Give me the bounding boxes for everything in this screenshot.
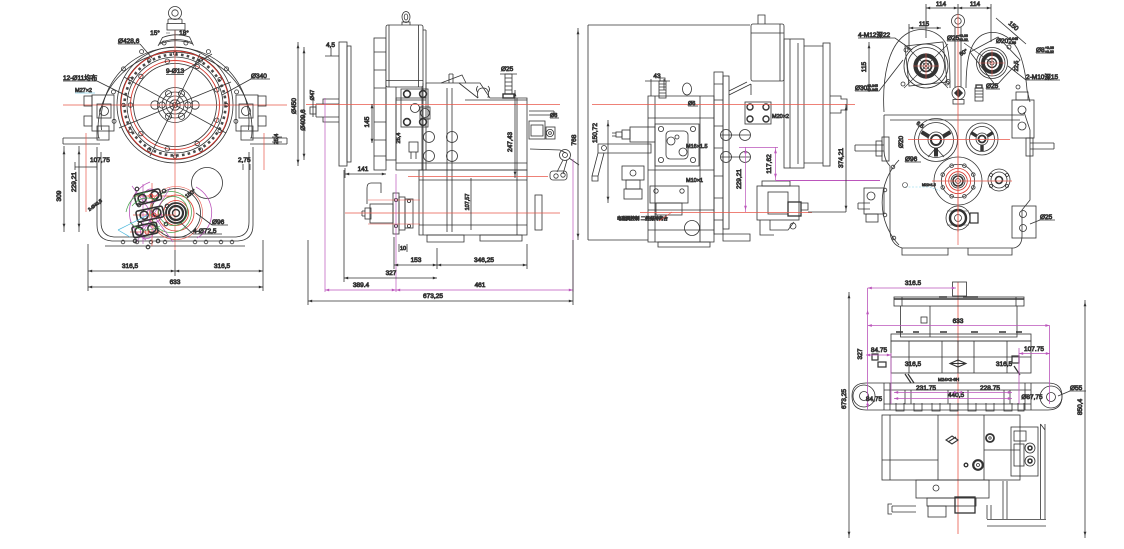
label o428,6	[118, 38, 152, 58]
svg-text:电磁阀控制 二挡保持离合: 电磁阀控制 二挡保持离合	[617, 215, 668, 222]
shackle mount block	[167, 24, 185, 31]
12 bolt holes	[122, 52, 228, 158]
label o25 top	[501, 66, 514, 73]
dim o450 o409 o47 left	[291, 42, 316, 166]
housing outer second arc	[101, 47, 249, 130]
lifting eye small	[402, 12, 410, 28]
cyan label M27x2	[75, 88, 95, 94]
svg-text:Ø87,75: Ø87,75	[1021, 394, 1043, 401]
eyebolt boss circle	[952, 87, 965, 105]
pto housing circle	[152, 189, 201, 238]
main body	[648, 96, 714, 242]
svg-text:Ø47: Ø47	[310, 90, 316, 100]
output green circles	[159, 197, 188, 226]
cyan label M20x2	[772, 114, 789, 120]
cyan leader	[118, 215, 148, 237]
lifting eyebolt ring	[952, 15, 965, 88]
svg-text:327: 327	[857, 348, 864, 359]
inspection hole	[192, 168, 223, 199]
pto red outer circle	[150, 187, 203, 240]
rear plate 1	[784, 39, 804, 168]
ear circles	[853, 385, 1062, 408]
svg-text:9-Ø13: 9-Ø13	[166, 68, 184, 75]
right side flat bar	[529, 111, 554, 115]
svg-text:150,72: 150,72	[592, 123, 599, 143]
hub step small	[310, 107, 316, 114]
dim 150,72	[592, 120, 608, 203]
dim 327	[344, 170, 437, 282]
mid flange band	[891, 332, 1031, 341]
right bracket L	[987, 424, 1046, 526]
label 9-o13	[166, 54, 212, 75]
right bearing diamond plate	[970, 37, 1020, 86]
bottom skid feet	[902, 248, 1012, 255]
magenta vertical ext lines	[325, 98, 573, 292]
magenta arcs	[129, 182, 150, 240]
housing flange bolts	[111, 41, 238, 123]
svg-text:117,62: 117,62	[766, 154, 773, 174]
lower body	[882, 415, 1020, 480]
svg-text:84.75: 84.75	[871, 347, 888, 354]
body left upper edge	[884, 114, 1024, 116]
red leader text	[617, 212, 672, 222]
svg-text:145: 145	[364, 116, 371, 127]
svg-text:Ø20: Ø20	[996, 38, 1009, 45]
left big cover arc	[882, 160, 899, 245]
right actuator blocks	[529, 121, 555, 139]
svg-text:228.75: 228.75	[980, 385, 1000, 392]
svg-text:633: 633	[170, 279, 181, 286]
svg-text:327: 327	[386, 270, 397, 277]
label o25 tol	[947, 34, 969, 42]
red short upper output lines	[368, 200, 420, 224]
magenta link lines	[132, 184, 173, 244]
red horizontal upper flanges	[908, 139, 1010, 141]
lifting eye shackle	[168, 7, 182, 27]
svg-text:Ø450: Ø450	[291, 98, 298, 114]
spoke lines	[119, 54, 231, 156]
svg-text:114: 114	[970, 1, 981, 8]
dim 25,4	[396, 133, 402, 144]
ears bar	[852, 383, 1062, 410]
dark dot	[986, 434, 994, 442]
svg-text:4,5: 4,5	[326, 42, 335, 49]
upper box	[901, 306, 1018, 337]
cyan label M16x1.5	[686, 144, 708, 150]
gear teeth dashed ring	[125, 55, 226, 156]
bell inner ring plate	[386, 48, 396, 160]
left bearing flange square	[905, 42, 947, 86]
dim 25,4 right rail	[272, 134, 282, 145]
svg-text:22,5: 22,5	[1014, 61, 1020, 72]
oil filler fitting	[409, 142, 418, 159]
body outline	[884, 112, 1030, 248]
red small circles cluster	[145, 194, 156, 234]
separating line	[890, 119, 1020, 121]
top control box	[386, 25, 423, 87]
four side cover bolts	[424, 132, 458, 162]
dim 107.75 green	[1019, 326, 1050, 405]
dim 673,25	[308, 240, 573, 305]
svg-text:461: 461	[475, 282, 486, 289]
dim 247,43	[507, 90, 515, 178]
red centerline output	[345, 212, 560, 214]
roof gusset	[441, 75, 466, 83]
dim 633 green	[868, 318, 1050, 326]
top clamp pad wide	[158, 35, 194, 46]
svg-text:2,75: 2,75	[238, 157, 251, 164]
dark valve body 3	[132, 222, 159, 238]
housing top silhouette right lobe	[966, 32, 1030, 102]
breather pipe o25	[500, 74, 517, 98]
upper circle bolts scatter	[901, 45, 1020, 89]
red marks upper circles	[913, 50, 1005, 79]
flywheel circle inner flange	[127, 57, 223, 153]
bell flange bolt ticks	[374, 52, 386, 156]
bolt circle red 9-o13	[131, 61, 220, 150]
dim 440,5 green	[894, 392, 1012, 399]
svg-text:231.75: 231.75	[916, 385, 936, 392]
dim 4,5	[325, 42, 339, 56]
main body lower	[419, 170, 527, 235]
svg-text:374,21: 374,21	[838, 148, 845, 168]
red crosshair	[95, 30, 255, 250]
dim 145	[364, 104, 372, 143]
svg-text:18°: 18°	[179, 29, 189, 37]
dim 115 top	[909, 21, 941, 50]
bottom skid	[658, 234, 750, 247]
svg-text:M20×2: M20×2	[772, 114, 789, 120]
output dark rings	[166, 203, 186, 223]
label o25 lowright	[1030, 214, 1055, 224]
flywheel circle outer flange	[121, 51, 230, 160]
right shaft stub	[1026, 138, 1054, 156]
top control box	[751, 24, 784, 81]
wide body band	[891, 341, 1031, 373]
red centerline input	[306, 104, 560, 106]
dim 346,25	[437, 244, 527, 269]
label o20 rot left	[898, 135, 905, 148]
body internal verticals	[423, 83, 517, 235]
top flange bar	[894, 297, 1024, 306]
main body upper	[396, 83, 527, 170]
output shaft assembly	[362, 183, 413, 234]
dim 114 114 top	[926, 1, 991, 42]
label o6	[688, 101, 698, 107]
left boundary ext line	[588, 25, 750, 240]
bottom boss circle	[685, 221, 700, 236]
dim 84.75 green	[866, 347, 891, 404]
lower pump box	[650, 186, 688, 215]
bell housing flange	[374, 38, 386, 170]
magenta long horizontal to view4	[776, 180, 881, 182]
svg-text:247,43: 247,43	[507, 132, 514, 152]
label o55	[1058, 385, 1086, 396]
dim 2,75	[238, 157, 251, 170]
flywheel plate	[339, 42, 347, 166]
label o96	[196, 213, 228, 226]
magenta circles left	[144, 189, 158, 203]
rib triangle	[729, 82, 751, 95]
svg-text:M10×1: M10×1	[686, 178, 703, 184]
flywheel plate inner	[347, 46, 351, 162]
breather ribbed pipe	[659, 78, 666, 98]
gear housing body outline	[97, 147, 253, 241]
hub circles	[158, 88, 193, 123]
body inner flange line	[101, 152, 249, 237]
label 6,5	[915, 121, 925, 130]
dim 673,25 left	[841, 292, 849, 538]
label o8 right	[550, 113, 559, 119]
svg-text:346,25: 346,25	[474, 257, 494, 264]
svg-text:84,75: 84,75	[866, 396, 883, 403]
label 4-o72,5	[180, 222, 222, 235]
svg-text:Ø20: Ø20	[898, 135, 905, 148]
label o25 mid	[986, 83, 1000, 90]
svg-text:316,5: 316,5	[905, 361, 922, 368]
latch darks right	[1012, 356, 1020, 375]
dim 43	[645, 73, 670, 96]
red vertical centerline v5	[957, 282, 959, 534]
right pump v5	[1011, 427, 1038, 476]
right bracket	[236, 95, 266, 140]
svg-text:768: 768	[571, 134, 578, 145]
mounting flange	[714, 72, 723, 234]
svg-text:229,21: 229,21	[71, 172, 78, 192]
intermediate flange right	[966, 123, 998, 155]
svg-text:M24×2-6H: M24×2-6H	[938, 377, 959, 382]
red vertical centerline	[957, 14, 959, 232]
rear leg bracket	[535, 195, 542, 230]
body internal horizontals	[396, 100, 527, 225]
svg-text:-0.06: -0.06	[1008, 41, 1016, 45]
cluster small bolts	[133, 187, 169, 249]
label o340	[222, 73, 270, 95]
body inner lines	[648, 96, 714, 242]
bolt circle red 12-o11	[121, 51, 229, 159]
lifting eye v3	[683, 83, 692, 95]
mounting block with bolts	[401, 89, 430, 127]
rear thin disc	[823, 43, 830, 166]
upper right bearing circles	[977, 48, 1008, 79]
svg-text:850,4: 850,4	[1077, 398, 1084, 415]
dim 327 green left	[857, 348, 864, 359]
valve plate big	[655, 124, 699, 166]
section symbol lower	[946, 436, 958, 444]
bottom bolt dots	[121, 240, 234, 244]
second plate	[723, 76, 729, 229]
svg-text:+0.02: +0.02	[1045, 50, 1054, 54]
rear lower pump assembly	[757, 181, 808, 235]
red centerline mid	[408, 176, 548, 178]
svg-text:316,5: 316,5	[996, 361, 1013, 368]
dark valve body 2	[136, 206, 165, 222]
flywheel circle ring	[134, 64, 217, 147]
housing outer silhouette arc	[98, 52, 252, 138]
svg-text:115: 115	[919, 21, 930, 28]
label o20 tol	[996, 37, 1018, 45]
dim 633 row	[88, 276, 263, 291]
latch darks left	[872, 354, 914, 383]
svg-text:115: 115	[861, 61, 868, 72]
serrated tab row	[896, 403, 1024, 411]
dark valve body 1	[134, 189, 162, 206]
top box inner	[751, 24, 784, 81]
svg-text:43: 43	[653, 73, 661, 80]
right lower pump	[1012, 206, 1036, 238]
dim 228.75 green	[958, 385, 1012, 392]
svg-text:316,5: 316,5	[122, 263, 139, 270]
flywheel hub steps	[316, 99, 339, 122]
flywheel circle o428	[117, 47, 233, 163]
svg-text:25,4: 25,4	[274, 134, 280, 145]
dim 19 small	[399, 244, 407, 252]
bottom foot line	[105, 245, 245, 247]
label 150deg	[184, 188, 197, 199]
upper left bearing circles	[904, 44, 948, 88]
svg-text:141: 141	[358, 166, 369, 173]
dim 107,57	[465, 178, 471, 230]
svg-text:309: 309	[56, 190, 63, 201]
output bolt ring	[941, 164, 975, 198]
svg-text:107,57: 107,57	[465, 194, 471, 211]
dim 850,4 right	[1077, 300, 1085, 538]
label o96 v4	[905, 156, 921, 163]
right mounting rail	[250, 138, 287, 144]
dim 389.4 magenta	[325, 282, 396, 290]
svg-text:M22×1.5: M22×1.5	[922, 183, 936, 187]
red cross output	[932, 155, 1012, 245]
output stub o30	[830, 96, 847, 113]
9 bolt holes	[128, 59, 219, 151]
svg-text:673,25: 673,25	[841, 389, 848, 409]
bar top bolt bumps	[939, 296, 978, 298]
left bracket	[84, 95, 114, 140]
label o30 left	[855, 60, 903, 92]
dim 768 right	[571, 28, 578, 240]
svg-text:25,4: 25,4	[396, 133, 402, 144]
red centerline pto v3	[640, 212, 812, 214]
left valve stack	[622, 166, 644, 199]
left linkage arm	[592, 144, 651, 181]
60 deg line	[964, 43, 992, 63]
dim 229,21 left	[56, 146, 79, 232]
svg-text:Ø25: Ø25	[501, 66, 514, 73]
top bracket post	[449, 74, 478, 98]
hub 6 holes	[159, 91, 191, 120]
svg-text:389.4: 389.4	[353, 282, 370, 289]
left pump cylinder	[612, 127, 655, 142]
output red rings	[164, 201, 189, 226]
svg-text:+0.02: +0.02	[959, 38, 968, 42]
dim 115 left	[861, 42, 869, 92]
lifting eye omega	[477, 86, 490, 98]
dim 374,21	[808, 104, 846, 212]
dim 316,5 316,5 row	[88, 240, 263, 276]
red cluster crosshair	[130, 183, 174, 246]
label o8 tol	[1036, 46, 1054, 54]
cyan label M10x1	[686, 178, 703, 184]
svg-text:633: 633	[953, 318, 964, 325]
dim 461 magenta	[396, 282, 573, 290]
left shaft stub	[855, 137, 889, 161]
rear section edges	[804, 46, 823, 163]
output red circles	[945, 168, 970, 193]
left cover bolts	[883, 165, 896, 240]
svg-text:107.75: 107.75	[1024, 346, 1044, 353]
left mounting rail	[63, 138, 100, 144]
rear plate behind top box	[422, 30, 426, 170]
4 side cover bolts	[721, 130, 751, 163]
top cap	[953, 282, 967, 296]
section bowtie symbol	[950, 360, 966, 367]
flange bolt ticks	[714, 84, 723, 220]
label 12-o11	[63, 73, 131, 98]
svg-text:15°: 15°	[150, 29, 160, 37]
cyan dashed note	[903, 183, 941, 192]
left gauge valve	[858, 188, 884, 222]
svg-text:316.5: 316.5	[905, 280, 922, 287]
saddle breather	[975, 85, 983, 101]
svg-text:229,21: 229,21	[736, 169, 743, 189]
bottom shaft circle	[946, 206, 978, 230]
svg-text:M16×1.5: M16×1.5	[686, 144, 708, 150]
bracket red centerlines	[86, 133, 264, 212]
dim 316.5 green top	[868, 280, 956, 410]
label 150 diag	[996, 18, 1026, 44]
top box inner lines	[386, 25, 423, 87]
svg-text:673,25: 673,25	[423, 293, 443, 300]
housing top silhouette left lobe	[884, 30, 950, 112]
rear plate inner	[790, 39, 798, 168]
svg-text:316,5: 316,5	[214, 263, 231, 270]
dim 231.75 green	[894, 385, 958, 392]
label 4-M12	[858, 30, 912, 50]
magenta dim lines v3	[739, 147, 778, 212]
ears inner lines	[884, 383, 1031, 410]
svg-text:10: 10	[400, 246, 406, 252]
output flange main	[934, 157, 982, 205]
svg-text:114: 114	[936, 1, 947, 8]
svg-text:107,75: 107,75	[90, 157, 110, 164]
label 2-M10	[1008, 66, 1060, 81]
intermediate flange left	[915, 119, 958, 162]
dim 107,75	[75, 157, 110, 170]
right small flange	[988, 169, 1010, 191]
dim 141	[345, 166, 386, 178]
green small arcs cluster	[126, 192, 160, 230]
bottom assembly	[888, 480, 989, 517]
label 15 18 deg	[150, 29, 189, 46]
right upper pump block	[1012, 92, 1034, 138]
dark donut low	[964, 460, 983, 470]
4-bolt square plate	[745, 102, 771, 124]
svg-text:153: 153	[411, 257, 422, 264]
red centerline input v3	[592, 104, 855, 106]
bottom step skid	[427, 235, 522, 242]
dim 153	[394, 237, 437, 269]
top box pipe	[758, 15, 765, 24]
svg-text:Ø409,6: Ø409,6	[300, 109, 307, 131]
right lever assembly	[530, 149, 579, 180]
